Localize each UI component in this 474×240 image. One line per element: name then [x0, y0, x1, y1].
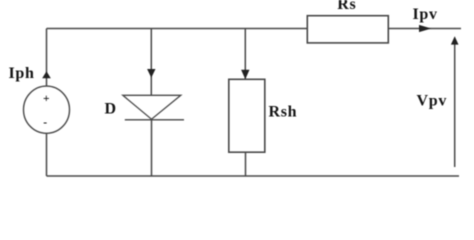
svg-text:Rs: Rs: [337, 0, 356, 13]
svg-text:Iph: Iph: [9, 65, 35, 82]
svg-text:Rsh: Rsh: [269, 103, 298, 120]
svg-text:-: -: [43, 117, 47, 129]
svg-text:Vpv: Vpv: [417, 93, 448, 110]
svg-text:Ipv: Ipv: [413, 6, 438, 23]
svg-text:D: D: [105, 101, 117, 118]
svg-text:+: +: [43, 93, 50, 105]
